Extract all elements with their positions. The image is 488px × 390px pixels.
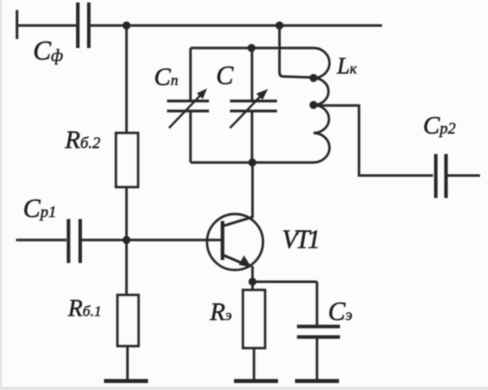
node D (tank bottom / collector) <box>248 159 256 167</box>
transistor VT1 <box>207 214 263 270</box>
wire node A down to Rб.2 <box>125 26 128 135</box>
svg-text:C: C <box>216 61 234 90</box>
coil tap 1 junction <box>310 74 318 82</box>
resistor Rб.1 <box>118 295 139 346</box>
wire base node down to Rб.1 <box>125 240 128 296</box>
svg-text:Rб.1: Rб.1 <box>67 296 101 322</box>
svg-text:Rб.2: Rб.2 <box>64 127 100 154</box>
coil tap 2 wire to Cр2 <box>314 106 434 176</box>
wire emitter down to node F <box>251 266 254 282</box>
resistor Rэ <box>243 290 265 348</box>
wire down to Cэ <box>316 282 319 326</box>
inductor Lк <box>314 48 330 162</box>
VT1 body circle <box>207 214 263 270</box>
node E (tank top / C branch) <box>248 44 256 52</box>
bottom edge shading <box>0 387 488 390</box>
C branch vertical <box>251 48 254 101</box>
node F (emitter node) <box>249 278 257 286</box>
variable capacitor C plates <box>230 101 277 111</box>
capacitor Cэ plates <box>297 327 340 338</box>
node A (top wire / Rб.2 branch) <box>123 22 131 30</box>
VT1 collector lead <box>223 217 253 226</box>
top supply wire <box>89 24 382 27</box>
coil tap 2 junction <box>310 101 318 109</box>
svg-text:Cэ: Cэ <box>328 297 352 326</box>
tank left vertical (Cп branch) <box>189 111 192 163</box>
wire node F down to Rэ <box>251 282 254 291</box>
VT1 emitter arrowhead <box>239 255 252 267</box>
wire node F to Cэ <box>253 280 318 283</box>
ground (under Cэ) <box>295 379 339 383</box>
variable capacitor Cп plates <box>167 101 209 111</box>
node C (base node) <box>123 236 131 244</box>
C adjustment arrow <box>230 89 268 128</box>
ground (under Rб.1) <box>104 379 148 383</box>
svg-text:VT1: VT1 <box>282 225 318 254</box>
wire Rэ to ground <box>253 348 256 380</box>
svg-text:Cп: Cп <box>154 64 178 91</box>
input terminal bar (top-left) <box>16 10 19 39</box>
svg-text:Cф: Cф <box>33 36 63 66</box>
Cп adjustment arrow <box>169 89 207 129</box>
VT1 emitter lead <box>223 255 250 267</box>
wire terminal to Cф <box>17 24 76 27</box>
capacitor Cр1 plates <box>69 219 81 263</box>
wire Rб.1 to ground <box>126 346 129 380</box>
capacitor Cф plates <box>78 3 89 49</box>
wire input to Cр1 <box>16 239 67 242</box>
svg-text:Cр1: Cр1 <box>23 194 56 223</box>
output wire right of Cр2 <box>446 174 480 177</box>
left edge shading <box>0 0 2 390</box>
wire Cэ to ground <box>316 337 319 383</box>
ground (under Rэ) <box>234 379 278 383</box>
svg-text:Rэ: Rэ <box>209 299 232 326</box>
coil tap 1 wire to node B <box>280 26 314 78</box>
wire Rб.2 to base node <box>125 187 128 240</box>
capacitor Cр2 plates <box>436 154 446 198</box>
tank bottom wire <box>191 161 314 164</box>
VT1 base bar <box>221 221 225 260</box>
svg-text:Lк: Lк <box>336 54 358 79</box>
svg-text:Cр2: Cр2 <box>423 113 456 140</box>
wire collector up to tank <box>251 163 254 218</box>
resistor Rб.2 <box>116 133 138 187</box>
tank top wire <box>191 47 314 50</box>
wire Cр1 to transistor base <box>80 239 222 242</box>
node B (top wire / coil tap branch) <box>276 22 284 30</box>
